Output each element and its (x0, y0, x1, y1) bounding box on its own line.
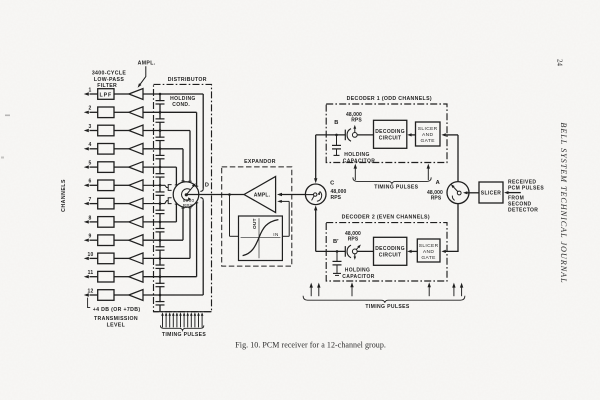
junction channel 11 at holding bus (159, 275, 162, 278)
wire channel 1 to distributor contact (down right) (143, 93, 203, 95)
channel 11 output arrow (90, 276, 98, 278)
channel 6 amplifier (129, 180, 143, 191)
wire channel 4 to distributor contact (down) (143, 148, 183, 150)
wire channel 10 box to amplifier (114, 257, 129, 259)
label transmission level bracket (88, 298, 91, 308)
junction channel 4 at holding bus (159, 148, 162, 151)
decoder 1 sampling gate 48000 RPS (344, 130, 346, 141)
junction channel 7 at holding bus (159, 202, 162, 205)
channel 9 filter box (98, 235, 114, 246)
channel 12 output arrow (90, 294, 98, 296)
channel 6 filter box (98, 180, 114, 191)
wire received PCM pulses into slicer (508, 192, 521, 194)
slicer and gate box (decoder 2) (417, 239, 440, 262)
channel 1 output arrow (90, 93, 98, 95)
decoder 2 dash-dot box (326, 223, 447, 281)
junction channel 10 at holding bus (159, 257, 162, 260)
channel 3 filter box (98, 125, 114, 136)
wire slicer-gate to decoding circuit (decoder 1) (411, 134, 415, 136)
channel 2 output arrow (90, 111, 98, 113)
holding condenser C2 (158, 120, 163, 122)
expandor feedback wire (281, 200, 289, 202)
channel 7 output arrow (90, 203, 98, 205)
channel 4 filter box (98, 144, 114, 155)
wire decoder 2 output B-prime to C switch (315, 209, 317, 252)
wire slicer to A switch (467, 192, 479, 194)
wire channel 11 box to amplifier (114, 276, 129, 278)
wire from A switch to slicer-gate (decoder 2) (446, 204, 458, 252)
wire channel 5 to distributor contact (down) (143, 166, 176, 168)
compression characteristic box (239, 216, 283, 261)
holding condenser C10 (158, 266, 163, 268)
decoding circuit box (decoder 2) (374, 237, 407, 265)
junction channel 5 at holding bus (159, 166, 162, 169)
holding condenser C1 (158, 101, 163, 103)
channel 11 filter box (98, 271, 114, 282)
wire sampler to decoding circuit (decoder 2) (357, 250, 373, 252)
junction node on D line (228, 193, 231, 196)
channel 10 filter box (98, 253, 114, 264)
paper grain overlay (0, 0, 1, 1)
channel 1 filter box (LPF) (98, 89, 114, 100)
junction B holding capacitor (decoder 1) (335, 134, 338, 137)
wire channel 5 box to amplifier (114, 166, 129, 168)
holding condenser C12 (158, 302, 163, 304)
channel 3 output arrow (90, 130, 98, 132)
wire from A switch to slicer-gate (decoder 1) (446, 134, 458, 136)
channel 1 amplifier (129, 89, 143, 100)
holding condenser C8 (158, 229, 163, 231)
channel 11 amplifier (129, 271, 143, 282)
expandor amplifier AMPL. (244, 177, 276, 213)
channel 7 amplifier (129, 198, 143, 209)
slicer box (479, 182, 503, 203)
channel 7 filter box (98, 198, 114, 209)
junction channel 8 at holding bus (159, 221, 162, 224)
channel 8 output arrow (90, 221, 98, 223)
characteristic curve (243, 220, 279, 256)
channel 9 amplifier (129, 235, 143, 246)
channel 10 amplifier (129, 253, 143, 264)
timing pulse arrows (bottom) (310, 286, 312, 296)
channel 5 output arrow (90, 166, 98, 168)
wire channel 6 box to amplifier (114, 184, 129, 186)
junction channel 3 at holding bus (159, 129, 162, 132)
holding condenser C11 (158, 284, 163, 286)
channel 6 output arrow (90, 184, 98, 186)
distributor rotation arc (182, 189, 191, 201)
wire channel 8 to distributor contact (up) (143, 221, 176, 223)
holding condenser C9 (158, 247, 163, 249)
junction B-prime holding capacitor (decoder 2) (336, 250, 339, 253)
channel 12 amplifier (129, 290, 143, 301)
junction channel 1 at holding bus (159, 93, 162, 96)
distributor dash-dot box (154, 84, 212, 311)
wire sampler to decoding circuit (decoder 1) (357, 134, 373, 136)
channel 10 output arrow (90, 257, 98, 259)
wire channel 3 box to amplifier (114, 130, 129, 132)
wire B node line decoder 1 (316, 134, 346, 136)
wire channel 7 box to amplifier (114, 203, 129, 205)
decoder 1 dash-dot box (326, 104, 447, 163)
holding condenser C5 (158, 174, 163, 176)
holding condenser C7 (158, 211, 163, 213)
holding condenser C4 (158, 156, 163, 158)
holding capacitor decoder 1 (336, 135, 338, 145)
distributor timing pulse arrows (162, 315, 164, 327)
wire channel 9 to distributor contact (up) (143, 239, 183, 241)
wire channel 10 to distributor contact (up) (143, 257, 190, 259)
channel 4 amplifier (129, 143, 143, 154)
expandor dashed box (222, 167, 292, 266)
holding condenser bus (159, 94, 161, 312)
holding condenser C6 (158, 193, 163, 195)
channel 5 amplifier (129, 162, 143, 173)
junction channel 6 at holding bus (159, 184, 162, 187)
wire channel 9 box to amplifier (114, 239, 129, 241)
wire slicer-gate to decoding circuit (decoder 2) (411, 250, 417, 252)
distributor switch A 48000 RPS (447, 182, 469, 204)
wire channel 12 box to amplifier (114, 294, 129, 296)
distributor rotary switch 8000 RPS (173, 182, 199, 208)
collector switch C 48000 RPS (305, 184, 326, 205)
wire channel 7 to distributor contact (left) (143, 201, 168, 204)
channel 9 output arrow (90, 239, 98, 241)
wire channel 11 to distributor contact (up) (143, 276, 197, 278)
scan specks (5, 115, 10, 117)
timing pulse arrows into decoder 1 (354, 167, 356, 180)
wire channel 4 box to amplifier (114, 148, 129, 150)
channel 2 amplifier (129, 107, 143, 118)
wire decoder 1 output B to C switch (315, 135, 317, 180)
channel 3 amplifier (129, 125, 143, 136)
wire channel 1 box to amplifier (114, 93, 129, 95)
wire junction to compression network (229, 195, 231, 237)
channel 5 filter box (98, 162, 114, 173)
channel 8 filter box (98, 217, 114, 228)
wire channel 12 to distributor contact (up right) (143, 294, 203, 296)
wire C switch to expandor input (281, 194, 316, 196)
holding condenser C3 (158, 138, 163, 140)
decoder 2 sampling gate 48000 RPS (344, 246, 346, 257)
wire channel 2 box to amplifier (114, 111, 129, 113)
characteristic axes (258, 218, 260, 258)
timing pulses brace (middle) (353, 177, 431, 183)
wire channel 3 to distributor contact (down) (143, 130, 190, 132)
decoding circuit box (decoder 1) (374, 120, 407, 148)
distributor wiper arm (186, 185, 194, 195)
distributor bottom bus (154, 311, 212, 313)
holding capacitor decoder 2 (336, 251, 338, 261)
channel 8 amplifier (129, 216, 143, 227)
wire channel 2 to distributor contact (down) (143, 111, 197, 113)
distributor timing pulses brace (160, 325, 203, 330)
wire channel 8 box to amplifier (114, 221, 129, 223)
wire B-prime node line decoder 2 (316, 250, 346, 252)
junction channel 2 at holding bus (159, 111, 162, 114)
distributor output wire to expandor (node D) (186, 194, 244, 196)
channel 4 output arrow (90, 148, 98, 150)
channel 2 filter box (98, 107, 114, 118)
junction channel 9 at holding bus (159, 239, 162, 242)
wire channel 6 to distributor contact (left) (143, 185, 168, 187)
timing pulses brace (bottom) (303, 296, 465, 303)
slicer and gate box (decoder 1) (416, 122, 441, 146)
channel 12 filter box (98, 290, 114, 301)
junction channel 12 at holding bus (159, 294, 162, 297)
